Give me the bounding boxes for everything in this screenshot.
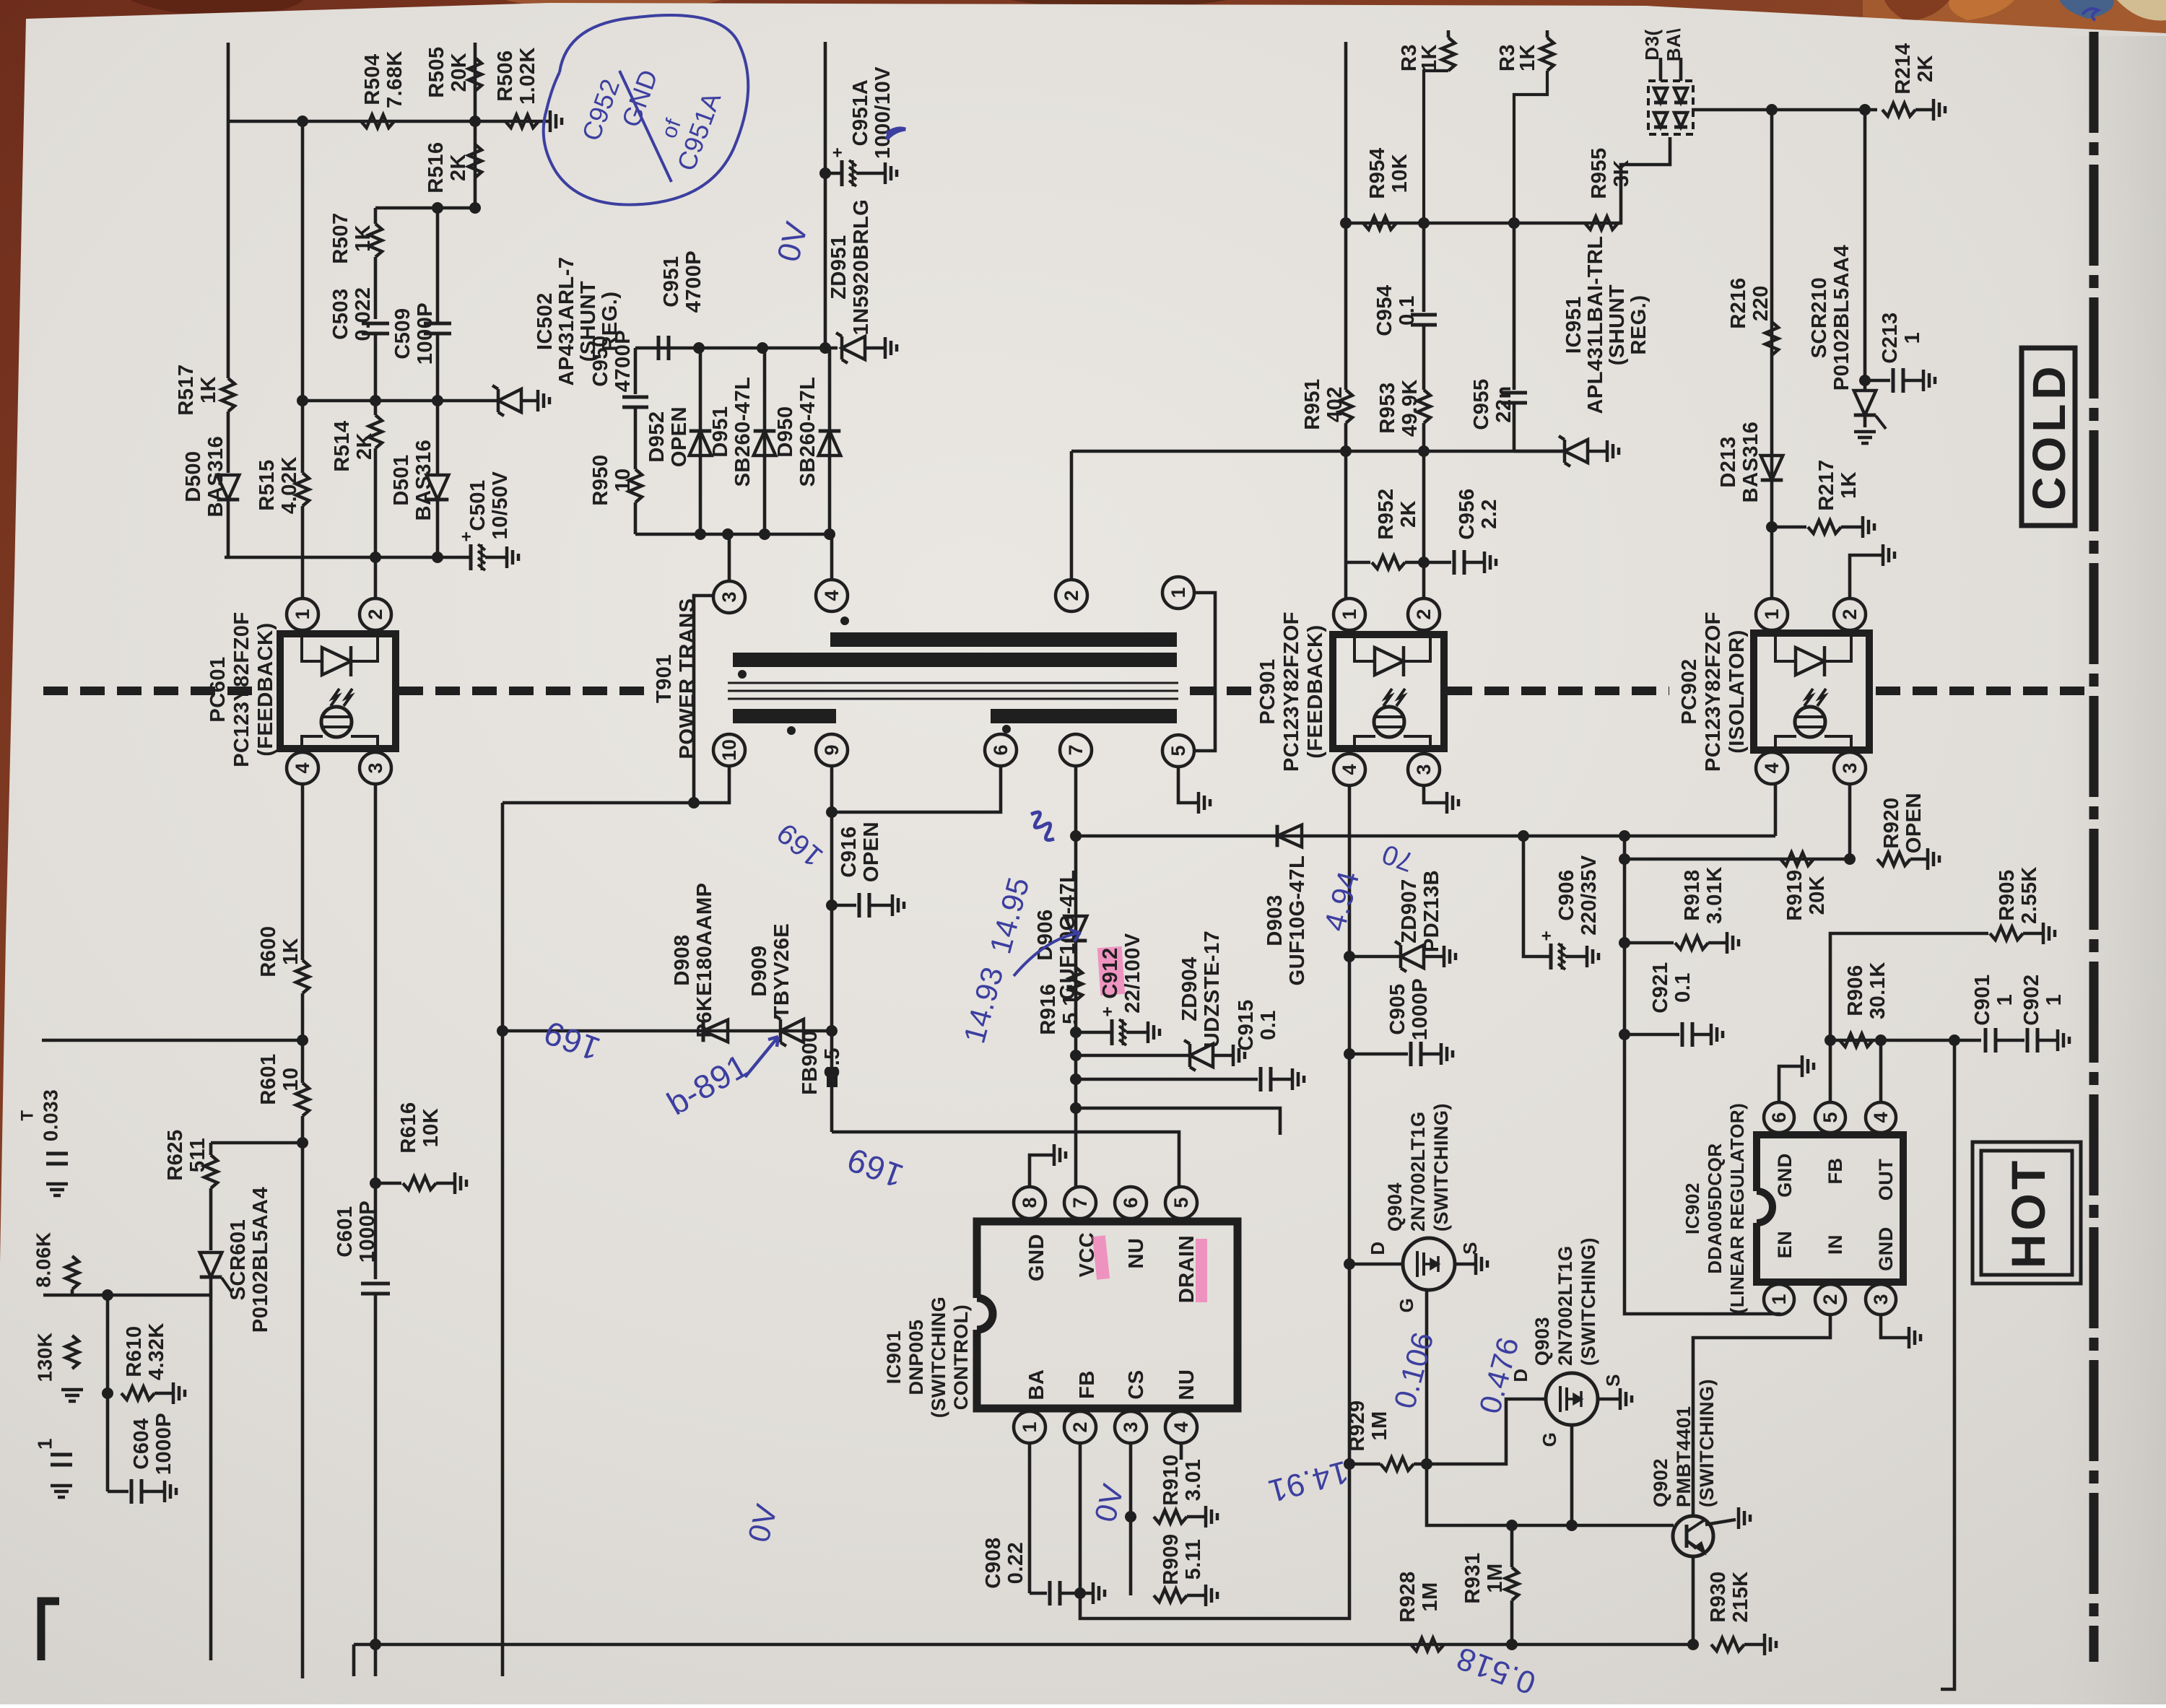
resistor R919 [1780, 853, 1814, 866]
diode D952 [699, 348, 703, 534]
wire R515 vertical line [301, 121, 305, 473]
svg-text:4: 4 [821, 590, 843, 601]
svg-text:IC951: IC951 [1562, 296, 1586, 354]
resistor R600 [296, 960, 309, 993]
resistor R928 [1411, 1638, 1444, 1651]
svg-text:C912: C912 [1099, 947, 1122, 998]
diode D501 [436, 401, 440, 475]
wire PC601 pin2 up [374, 557, 378, 598]
capacitor C950 [634, 348, 638, 394]
svg-text:R920: R920 [1880, 797, 1903, 848]
svg-text:4: 4 [1339, 764, 1360, 775]
svg-text:8: 8 [1019, 1197, 1040, 1208]
svg-text:DNP005: DNP005 [905, 1319, 927, 1395]
IC901 pin 3 [1115, 1411, 1147, 1443]
svg-text:DDA005DCQR: DDA005DCQR [1704, 1143, 1726, 1273]
isolation barrier vertical dash-dot line right [2089, 32, 2099, 1662]
svg-text:Q903: Q903 [1531, 1317, 1553, 1366]
svg-text:OPEN: OPEN [1902, 793, 1926, 853]
svg-text:1K: 1K [1516, 44, 1539, 71]
svg-text:C908: C908 [982, 1537, 1005, 1588]
wire snubber row [503, 1029, 832, 1033]
resistor R506 [505, 115, 539, 128]
svg-text:R625: R625 [164, 1129, 187, 1180]
svg-text:10K: 10K [1388, 154, 1412, 193]
svg-text:BAS316: BAS316 [1739, 422, 1762, 503]
resistor R929 [1344, 1458, 1355, 1470]
svg-text:(SWITCHING): (SWITCHING) [1578, 1237, 1599, 1366]
PC901 pin 1 [1334, 598, 1365, 630]
svg-text:PC123Y82FZOF: PC123Y82FZOF [1702, 611, 1725, 772]
svg-text:2: 2 [1413, 609, 1435, 619]
svg-text:D501: D501 [390, 454, 413, 505]
svg-text:22/100V: 22/100V [1121, 933, 1144, 1014]
resistor R905 [1990, 927, 2023, 940]
IC902 pin 2 [1815, 1284, 1845, 1315]
svg-text:IC902: IC902 [1682, 1182, 1703, 1234]
capacitor C916 [832, 904, 856, 907]
svg-text:TBYV26E: TBYV26E [770, 923, 793, 1019]
capacitor C901 [1984, 1028, 1988, 1053]
svg-text:S: S [1459, 1242, 1481, 1255]
svg-text:T901: T901 [653, 654, 676, 703]
svg-text:4.32K: 4.32K [145, 1323, 168, 1380]
PC902 pin 1 [1756, 598, 1788, 630]
svg-text:R616: R616 [397, 1102, 420, 1153]
resistor R516 [474, 121, 477, 208]
resistor R610 [121, 1387, 155, 1400]
resistor R514 [374, 401, 378, 415]
capacitor C503 [362, 322, 389, 326]
switching control IC901 box [977, 1221, 1238, 1408]
capacitor C501 polarized [469, 544, 473, 570]
op-amp IC951 shunt regulator symbol [1514, 450, 1565, 453]
svg-text:3: 3 [1120, 1421, 1141, 1432]
wire Q902 collector up to IC902 pin2 [1693, 1315, 1830, 1517]
wire R955 to D300 [1618, 137, 1670, 223]
wire PC601 pin3 down [374, 784, 378, 1279]
diode D213 [1761, 479, 1783, 482]
wire horizontal to left edge [42, 1039, 303, 1042]
IC901 pin 5 [1165, 1187, 1197, 1219]
svg-text:IC901: IC901 [883, 1330, 905, 1385]
resistor R507 [374, 208, 378, 224]
svg-text:5: 5 [1167, 745, 1189, 756]
svg-text:2N7002LT1G: 2N7002LT1G [1407, 1111, 1429, 1232]
svg-text:Q904: Q904 [1384, 1182, 1406, 1232]
PC901 LED [1354, 637, 1375, 661]
node junction C921 [1619, 1029, 1630, 1040]
wire IC901 pin3 down [1129, 1443, 1133, 1517]
svg-text:C956: C956 [1456, 488, 1479, 539]
node junction [297, 116, 308, 127]
svg-text:PC902: PC902 [1678, 658, 1701, 724]
svg-text:IC502: IC502 [534, 292, 557, 350]
svg-text:2.2: 2.2 [1478, 499, 1501, 529]
svg-text:215K: 215K [1729, 1571, 1752, 1622]
svg-text:OUT: OUT [1875, 1159, 1897, 1201]
capacitor C604 [108, 1490, 129, 1494]
capacitor C509 [436, 208, 440, 323]
pink highlight VCC [1092, 1235, 1110, 1280]
svg-text:CONTROL): CONTROL) [950, 1304, 972, 1410]
IC901 pin 6 [1115, 1187, 1147, 1219]
svg-text:220/35V: 220/35V [1578, 855, 1601, 936]
resistor R931 [1510, 1525, 1514, 1567]
capacitor C954 [1422, 223, 1426, 312]
svg-text:1: 1 [1901, 332, 1924, 344]
wire pin9 down [830, 767, 834, 1031]
wire top feed 950s right [1344, 42, 1348, 223]
wire node row C503 [375, 206, 475, 210]
handwritten circled note GND of C951A [544, 15, 749, 205]
fabric pattern top right [1863, 0, 2166, 38]
svg-text:1K: 1K [1837, 471, 1861, 499]
svg-text:R217: R217 [1815, 459, 1838, 510]
PC902 phototransistor [1795, 707, 1825, 737]
svg-text:1K: 1K [352, 225, 375, 252]
svg-text:2: 2 [1819, 1294, 1841, 1304]
PC901 light arrows [1383, 689, 1392, 706]
svg-text:1: 1 [1019, 1421, 1040, 1432]
svg-text:1: 1 [1761, 609, 1783, 619]
PC902 pin 4 [1756, 752, 1788, 784]
thyristor SCR210 [1854, 414, 1876, 417]
capacitor C908 [1030, 1592, 1047, 1595]
zener diode ZD951 [836, 333, 848, 363]
svg-text:3: 3 [1413, 764, 1435, 775]
wire Q904 gate [1425, 1290, 1429, 1464]
PC601 pin 1 [287, 598, 318, 630]
PC902 LED [1775, 637, 1796, 661]
wire R214 row [1692, 108, 1877, 112]
capacitor C921 [1624, 1033, 1679, 1037]
svg-text:(SHUNT: (SHUNT [1606, 284, 1629, 366]
svg-text:P0102BL5AA4: P0102BL5AA4 [1830, 245, 1853, 391]
svg-text:3: 3 [718, 591, 740, 602]
T901 pin 5 [1162, 735, 1194, 767]
node junction C912 [1070, 1027, 1082, 1038]
svg-text:C955: C955 [1470, 378, 1493, 430]
svg-text:1M: 1M [1368, 1411, 1391, 1440]
svg-text:C916: C916 [838, 826, 861, 877]
node junction ZD904 [1070, 1050, 1082, 1061]
svg-text:R951: R951 [1301, 378, 1324, 430]
node junction aux stub [1070, 1102, 1082, 1114]
svg-text:2: 2 [1061, 590, 1082, 601]
svg-text:22n: 22n [1492, 385, 1515, 422]
svg-text:20K: 20K [1806, 876, 1829, 915]
svg-text:(SWITCHING): (SWITCHING) [1696, 1379, 1718, 1507]
svg-text:PC901: PC901 [1256, 658, 1279, 724]
resistor R930 [1711, 1638, 1744, 1651]
svg-text:220: 220 [1749, 285, 1773, 321]
svg-text:0.1: 0.1 [1671, 972, 1695, 1003]
wire drain to IC901 pin5 [832, 1132, 1179, 1187]
resistor R909 [1129, 1517, 1133, 1595]
resistor R953 [1422, 325, 1426, 390]
svg-text:C902: C902 [2020, 974, 2043, 1025]
svg-text:D951: D951 [709, 406, 732, 457]
PC901 phototransistor [1374, 707, 1404, 737]
resistor R625 [209, 1143, 213, 1155]
PC902 pin 3 [1834, 752, 1866, 784]
wire gate row to Q902 base [1427, 1464, 1674, 1525]
wire SCR210 drop [1863, 110, 1867, 390]
wire pin5 ground [1178, 767, 1197, 803]
node junction EN rail tap [1619, 830, 1630, 842]
svg-text:R507: R507 [329, 212, 352, 263]
svg-text:C213: C213 [1879, 312, 1902, 363]
svg-text:NU: NU [1125, 1238, 1148, 1269]
svg-text:R516: R516 [425, 141, 448, 193]
svg-text:5.1: 5.1 [1059, 994, 1082, 1024]
svg-text:6: 6 [1768, 1112, 1790, 1123]
IC902 pin 1 [1764, 1284, 1794, 1315]
svg-text:R506: R506 [494, 50, 517, 101]
resistor R515 [296, 473, 309, 506]
svg-text:R916: R916 [1037, 983, 1060, 1034]
wire pin6 hook [832, 767, 1001, 812]
svg-text:+: + [1541, 927, 1552, 946]
resistor R910 [1154, 1510, 1187, 1523]
wire IC902 pin3 ground [1881, 1315, 1908, 1338]
capacitor C601 [361, 1282, 390, 1286]
node junction bus A [1070, 830, 1082, 842]
handwritten arrow to D906 [1014, 930, 1080, 976]
wire PC901 pin4 rail [1348, 785, 1352, 1464]
resistor R214 [1882, 103, 1915, 116]
svg-text:4: 4 [1170, 1421, 1192, 1432]
svg-text:5.11: 5.11 [1182, 1539, 1205, 1580]
svg-text:OPEN: OPEN [860, 822, 883, 882]
IC901 pin 1 [1014, 1411, 1045, 1443]
svg-text:R906: R906 [1844, 964, 1867, 1016]
svg-text:1000P: 1000P [152, 1413, 175, 1475]
node junction C905 [1344, 1048, 1355, 1060]
svg-text:BAS316: BAS316 [204, 436, 227, 518]
wire SCR row [43, 1294, 211, 1297]
diode D500 [217, 498, 240, 502]
PC601 light arrows [331, 689, 339, 706]
svg-text:R928: R928 [1396, 1571, 1419, 1622]
svg-text:402: 402 [1323, 386, 1347, 422]
svg-text:(FEEDBACK): (FEEDBACK) [254, 622, 277, 756]
svg-text:C905: C905 [1386, 983, 1409, 1034]
svg-text:0.033: 0.033 [40, 1089, 62, 1142]
svg-text:4: 4 [1870, 1112, 1892, 1123]
wire OUT down [1941, 1040, 1954, 1689]
handwritten scribble top right corner [2082, 9, 2098, 20]
svg-text:2: 2 [365, 609, 386, 619]
capacitor C951 [657, 336, 661, 360]
svg-text:2: 2 [1069, 1421, 1091, 1432]
wire Q903 gate down [1570, 1425, 1574, 1525]
PC601 pin 2 [360, 598, 391, 630]
svg-text:4700P: 4700P [682, 250, 705, 313]
wire IC902 pin5 up [1829, 1040, 1832, 1102]
wire PC902 pin4 riser [1774, 784, 1778, 836]
wire PC902 pin2 ground [1850, 555, 1882, 598]
svg-text:2K: 2K [447, 154, 470, 181]
svg-text:R600: R600 [257, 925, 280, 977]
wire T901 pin4 up [830, 534, 834, 579]
PC901 pin 4 [1334, 754, 1365, 785]
wire node row IC502 [300, 399, 498, 403]
capacitor C912 polarized [1076, 1031, 1112, 1034]
svg-text:(ISOLATOR): (ISOLATOR) [1726, 629, 1749, 753]
svg-text:S: S [1602, 1374, 1624, 1387]
svg-text:R918: R918 [1681, 869, 1704, 920]
svg-text:R905: R905 [1996, 869, 2019, 920]
handwritten scribble near pin6 [1031, 812, 1054, 840]
svg-text:130K: 130K [34, 1333, 56, 1382]
wire C951A top stub [824, 42, 827, 348]
PC902 pin 2 [1834, 598, 1866, 630]
svg-text:4.02K: 4.02K [278, 456, 301, 514]
zener diode ZD907 [1349, 955, 1401, 959]
svg-text:R505: R505 [425, 46, 448, 97]
svg-text:IN: IN [1824, 1234, 1846, 1255]
pink highlight DRAIN [1196, 1239, 1207, 1302]
svg-text:1K: 1K [279, 938, 303, 965]
svg-text:4700P: 4700P [612, 330, 635, 392]
wire IC901 pin2 down to feedback return [1080, 1443, 1349, 1618]
wire pin3 left bracket [694, 596, 713, 803]
svg-text:3.01: 3.01 [1182, 1459, 1205, 1501]
T901 pin 6 [985, 734, 1017, 766]
svg-text:R953: R953 [1376, 382, 1399, 433]
T901 pin 1 [1162, 577, 1194, 609]
svg-text:R929: R929 [1346, 1400, 1369, 1451]
resistor R952 [1346, 561, 1370, 565]
wire PC601 pin4 down [301, 784, 305, 960]
diode D908 [702, 1020, 705, 1042]
svg-text:1M: 1M [1484, 1563, 1507, 1592]
svg-text:8.06K: 8.06K [32, 1232, 55, 1287]
svg-text:2K: 2K [1914, 55, 1937, 82]
wire pin10 down-left [503, 767, 729, 803]
capacitor C955 [1513, 223, 1516, 390]
svg-text:PC601: PC601 [206, 656, 230, 722]
resistor R954 [1363, 217, 1396, 230]
transistor Q904 mosfet [1344, 1258, 1355, 1270]
svg-text:FB: FB [1076, 1370, 1099, 1399]
wire PC902 pin3 down [1848, 784, 1852, 859]
wire secondary bus 950s [635, 347, 838, 350]
wire SCR stub down [209, 1295, 213, 1660]
svg-text:C954: C954 [1373, 284, 1396, 336]
paper subtle shadow right [0, 0, 1, 1]
svg-text:P0102BL5AA4: P0102BL5AA4 [249, 1187, 272, 1333]
svg-text:GUF10G-47L: GUF10G-47L [1286, 855, 1309, 986]
IC902 pin 3 [1866, 1284, 1896, 1315]
ferrite bead FB900 [827, 1067, 838, 1087]
resistor R3 second [1546, 30, 1549, 38]
svg-text:(FEEDBACK): (FEEDBACK) [1304, 624, 1327, 758]
wire aux stub [1076, 1108, 1280, 1135]
svg-text:C601: C601 [334, 1206, 357, 1257]
svg-text:HOT: HOT [2001, 1157, 2055, 1268]
T901 pin 9 [816, 734, 848, 766]
svg-text:C951: C951 [660, 256, 683, 307]
svg-text:GND: GND [1774, 1153, 1796, 1198]
svg-text:BAS316: BAS316 [412, 440, 435, 521]
svg-text:CS: CS [1125, 1369, 1148, 1399]
svg-text:G: G [1396, 1298, 1417, 1313]
svg-text:D213: D213 [1717, 436, 1740, 487]
svg-text:1M: 1M [1419, 1582, 1442, 1611]
svg-text:1N5920BRLG: 1N5920BRLG [850, 199, 873, 336]
svg-text:4: 4 [1761, 762, 1783, 773]
svg-text:G: G [1539, 1432, 1560, 1447]
svg-text:1: 1 [1993, 994, 2017, 1006]
svg-text:SCR210: SCR210 [1808, 277, 1831, 359]
PC601 pin 4 [287, 752, 318, 784]
node junction R601 R625 [297, 1137, 308, 1149]
diode D950 [828, 348, 832, 534]
capacitor C902 [1996, 1039, 2024, 1042]
wire PC901 pin1 up [1344, 562, 1348, 598]
diode D951 [763, 348, 767, 534]
svg-text:C951A: C951A [849, 79, 872, 147]
IC901 pin 7 [1064, 1187, 1096, 1219]
svg-text:R517: R517 [175, 364, 198, 415]
node junction R918 [1619, 937, 1630, 949]
capacitor C951A polarized [825, 172, 842, 175]
svg-text:C604: C604 [130, 1418, 153, 1469]
PC902 light arrows [1804, 689, 1813, 706]
capacitor C915 [1076, 1078, 1258, 1081]
svg-text:3: 3 [1870, 1294, 1892, 1304]
COLD label box [2022, 348, 2075, 526]
svg-text:R214: R214 [1892, 43, 1915, 94]
resistor R920 [1877, 853, 1910, 866]
IC901 pin 4 [1165, 1411, 1197, 1443]
optocoupler PC901 box [1333, 635, 1444, 749]
svg-text:C901: C901 [1971, 974, 1994, 1025]
T901 pin 2 [1056, 580, 1087, 611]
wire Q902 emitter ground [1705, 1520, 1736, 1525]
svg-text:6: 6 [990, 744, 1012, 755]
svg-text:0.022: 0.022 [352, 287, 375, 341]
transistor Q902 [1673, 1516, 1713, 1556]
wire pin1 to pin5 bracket [1195, 593, 1215, 751]
diode block D300 dashed box [1648, 81, 1693, 134]
capacitor C213 [1865, 379, 1890, 383]
isolation barrier dashed line [43, 687, 260, 695]
svg-text:7: 7 [1065, 744, 1087, 755]
svg-text:DRAIN: DRAIN [1175, 1235, 1199, 1303]
wire EN rail [1624, 836, 1779, 1315]
wire R952 verticals [1344, 451, 1348, 562]
svg-text:1K: 1K [1418, 44, 1441, 71]
svg-text:P6KE180AAMP: P6KE180AAMP [693, 882, 716, 1037]
svg-text:7: 7 [1069, 1197, 1091, 1208]
resistor R916 [1069, 967, 1082, 1001]
svg-text:R919: R919 [1783, 869, 1806, 920]
svg-text:PC123Y82FZOF: PC123Y82FZOF [1280, 611, 1303, 772]
diode D906 [1065, 939, 1087, 943]
PC901 pin 2 [1408, 598, 1440, 630]
resistor R217 [1772, 526, 1806, 529]
wire IC901 pin4 stub [1180, 1443, 1183, 1460]
T901 pin 10 [713, 734, 745, 766]
svg-text:C501: C501 [466, 479, 490, 531]
svg-text:R910: R910 [1160, 1454, 1183, 1505]
svg-text:D903: D903 [1263, 894, 1287, 946]
thyristor SCR601 [200, 1276, 222, 1279]
